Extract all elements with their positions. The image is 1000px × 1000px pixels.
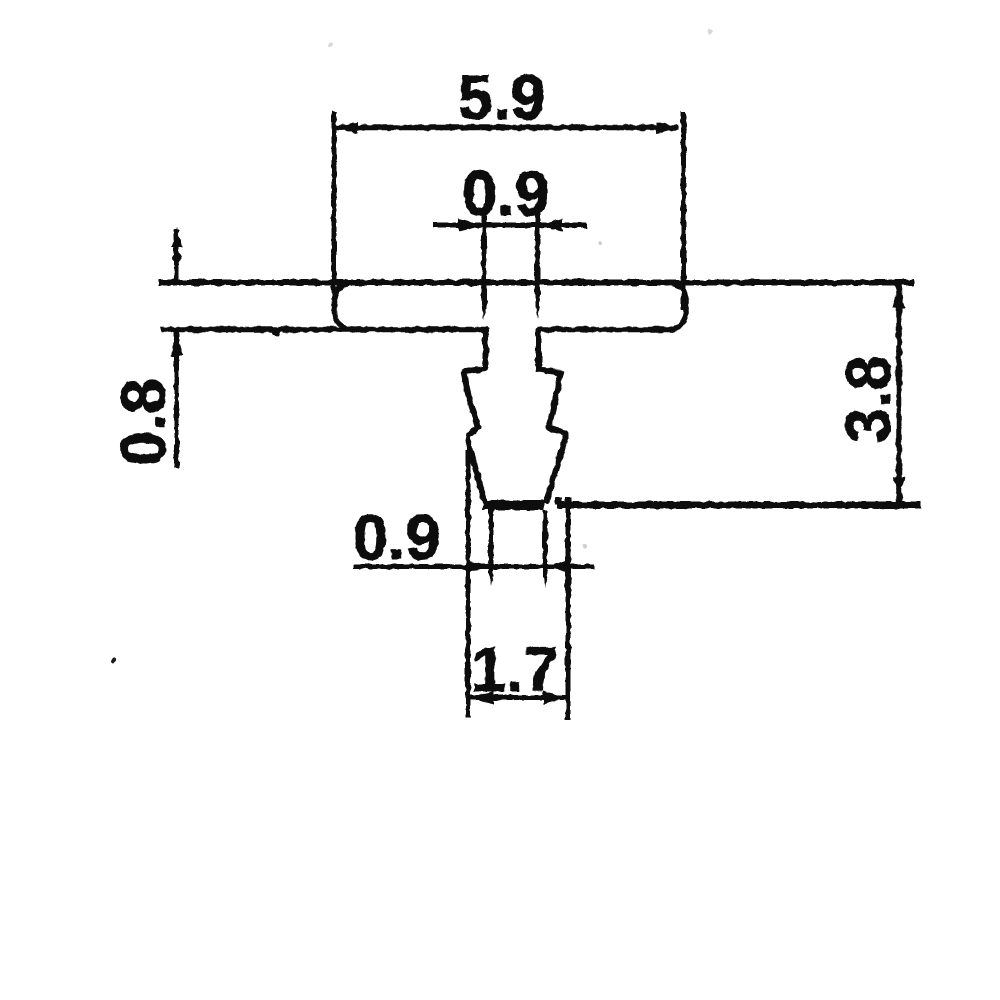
dimension label 3.8 <box>834 355 904 443</box>
dimension line 0.9 lower <box>353 564 594 569</box>
stem tip bottom edge <box>483 500 544 510</box>
arrowhead 5.9 left <box>335 122 358 134</box>
arrowhead 0.8 top up <box>171 227 182 247</box>
dimension label 0.9 lower <box>353 503 441 573</box>
junction dot 0.8 <box>172 254 181 263</box>
dimension line 0.8 upper <box>174 229 179 281</box>
dimension line 0.8 lower <box>174 331 179 468</box>
dimension line 3.8 <box>896 285 902 503</box>
svg-text:3.8: 3.8 <box>834 355 904 443</box>
leader line stem tip left <box>489 510 494 586</box>
arrowhead 1.7 right <box>543 691 568 704</box>
dimension label 5.9 <box>458 63 546 133</box>
arrowhead 0.8 up <box>170 334 183 356</box>
arrowhead 1.7 left <box>469 691 494 704</box>
scan speck 1 <box>708 30 713 35</box>
leader line stem left upper <box>482 211 487 320</box>
head left end cap <box>335 283 353 329</box>
head bottom edge right <box>537 327 672 333</box>
scan speck 2 <box>583 544 587 548</box>
panel lower surface line right <box>557 497 921 505</box>
dimension line 1.7 <box>470 695 569 700</box>
panel top surface line <box>158 280 914 286</box>
dimension line 5.9 <box>336 125 678 131</box>
scan speck 3 <box>111 659 116 664</box>
arrowhead 3.8 up <box>893 286 905 308</box>
arrowhead 0.9 lower right <box>546 560 570 573</box>
arrowhead 0.9 upper right <box>538 219 562 232</box>
arrowhead 0.9 lower left <box>466 560 490 573</box>
arrowhead 5.9 right <box>656 122 679 134</box>
panel bottom surface line left <box>161 330 487 337</box>
extension line 5.9 left <box>332 111 337 300</box>
clip stem and barbs left profile <box>465 330 486 501</box>
svg-text:0.9: 0.9 <box>353 503 441 573</box>
svg-text:0.8: 0.8 <box>109 378 179 466</box>
dimension line 0.9 upper <box>433 223 587 228</box>
clip stem and barbs right profile <box>539 330 566 501</box>
arrowhead 0.9 upper left <box>459 219 483 232</box>
dimension label 0.9 upper <box>462 159 550 229</box>
extension line 5.9 right <box>681 112 686 310</box>
extension line 1.7 right <box>566 497 571 721</box>
leader line stem right upper <box>535 210 540 319</box>
scan speck 5 <box>598 241 602 245</box>
scan speck 4 <box>328 43 332 47</box>
extension line 1.7 left <box>466 450 471 717</box>
dimension label 1.7 <box>471 635 559 705</box>
leader line stem tip right <box>543 510 548 588</box>
svg-text:5.9: 5.9 <box>458 63 546 133</box>
dimension label 0.8 <box>109 378 179 466</box>
head right end cap <box>669 283 686 330</box>
arrowhead 3.8 down <box>893 477 905 499</box>
